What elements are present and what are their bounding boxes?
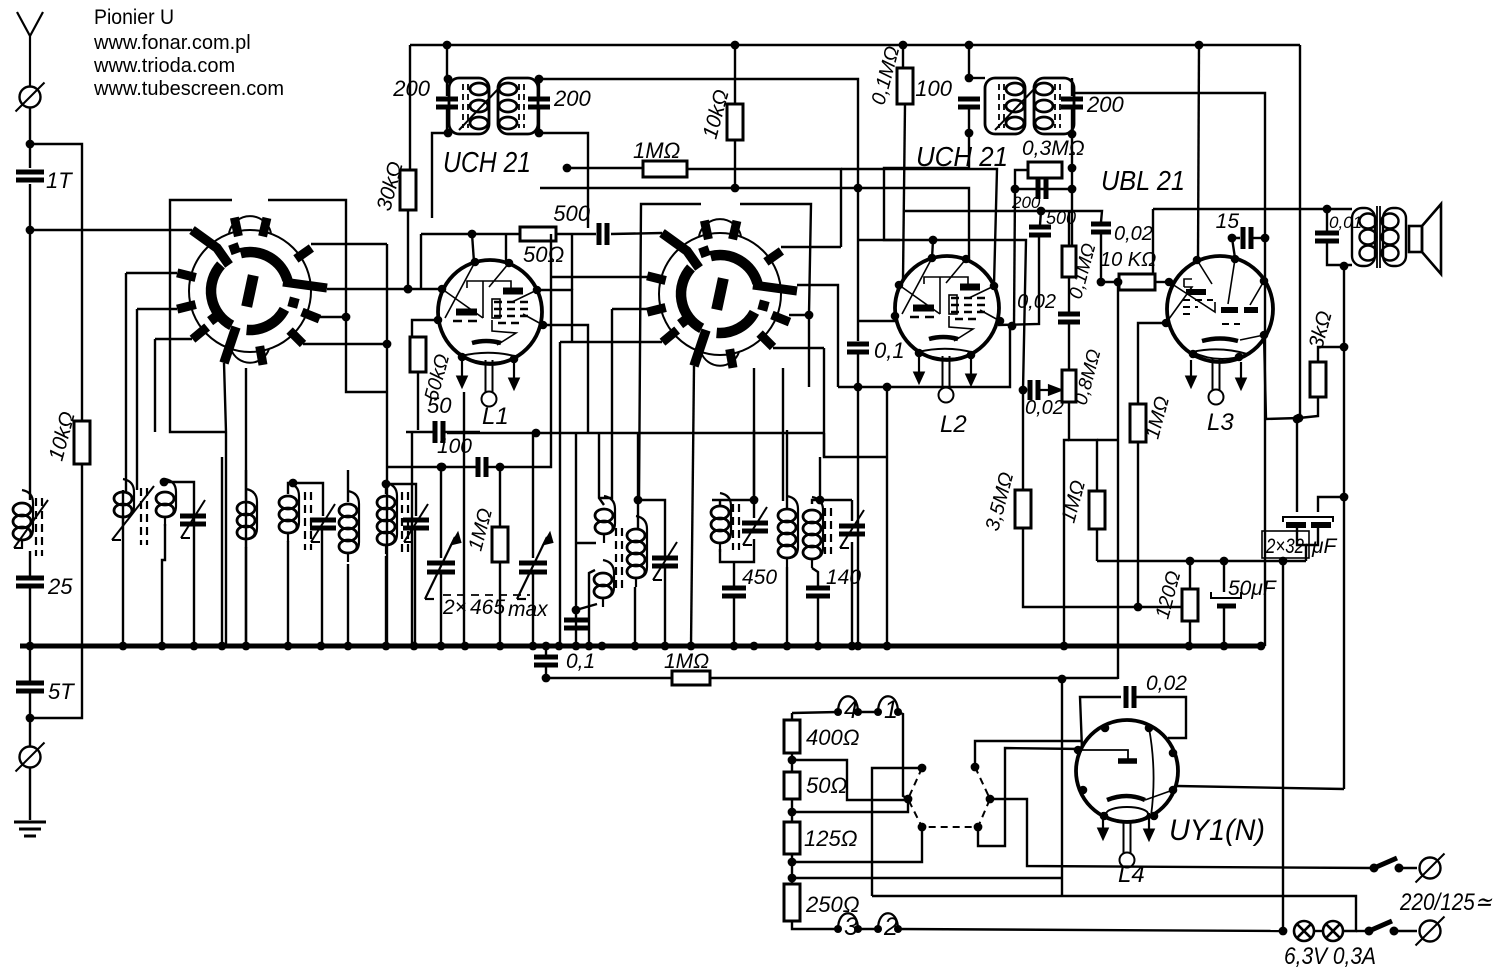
node 15 left [1228, 234, 1237, 243]
node x887 [883, 383, 892, 392]
plug contact b [904, 795, 913, 804]
wire y188 screen line [540, 188, 969, 258]
wire antenna to switch S1 [30, 229, 192, 231]
wire 120 top [1189, 561, 1191, 589]
wire coil450 sec down [786, 567, 788, 646]
wire 0.02 uy left [1080, 697, 1121, 749]
wire tube1 left low [412, 320, 438, 337]
speaker [1409, 204, 1441, 274]
node bus 576 [572, 642, 581, 651]
wire cap450 down [733, 596, 735, 646]
wire y94 link [1072, 93, 1265, 646]
wire S2 west stub [551, 276, 659, 278]
svg-text:μF: μF [1311, 535, 1338, 558]
node 3k top [1340, 343, 1349, 352]
node rail d [965, 41, 974, 50]
wire 0.02 lower down [1068, 322, 1070, 370]
core band4 [305, 492, 311, 550]
wire cap50 row [406, 431, 433, 433]
node bus 246 [242, 642, 251, 651]
svg-text:0,02: 0,02 [1025, 397, 1064, 419]
wire IFT1 bottom to grid box [432, 133, 448, 218]
node 15 right [1261, 234, 1270, 243]
wire 1M mid down [1096, 529, 1098, 561]
node rail e [1195, 41, 1204, 50]
wire S2 west2 stub [612, 308, 661, 310]
wire x1118 column [1117, 282, 1119, 679]
wire S1 west column2 [136, 309, 138, 490]
wire coil2 right column [162, 524, 165, 646]
svg-text:6,3V 0,3A: 6,3V 0,3A [1284, 943, 1376, 970]
wire 2x32 right down [1306, 528, 1318, 545]
wire coil450 up [753, 430, 755, 500]
wire y168 grid line [567, 167, 643, 169]
coil band5 [339, 491, 359, 562]
wire x1015 down [1014, 189, 1015, 326]
plug contact c [918, 823, 927, 832]
node bus 734 [730, 642, 739, 651]
resistor 1M ohm top [643, 161, 687, 177]
node IFT1 right top [535, 75, 544, 84]
svg-text:Pionier U: Pionier U [94, 6, 174, 29]
svg-text:L3: L3 [1207, 409, 1234, 436]
terminal 1 [874, 696, 902, 724]
svg-text:50: 50 [427, 393, 452, 418]
node bus 465 [461, 642, 470, 651]
wire IFT2 right top stub [1071, 78, 1073, 96]
wire 0.1M down to tube2 pin [903, 104, 905, 279]
antenna coil trimmer [14, 500, 48, 548]
wire x421 drop [420, 234, 422, 289]
trimmer cap band4 [310, 504, 336, 542]
coil band3 [237, 489, 257, 548]
capacitor 100 agc [478, 457, 486, 477]
svg-text:1T: 1T [46, 168, 73, 193]
svg-text:L1: L1 [482, 403, 509, 430]
wire varcap1 down [440, 572, 442, 646]
wire 0.8M down [1069, 402, 1097, 491]
plug contact d [974, 823, 983, 832]
trimmer band2 [112, 486, 154, 540]
svg-text:0,1: 0,1 [874, 338, 905, 363]
node bus 321 [317, 642, 326, 651]
tube UBL21 [1166, 256, 1273, 362]
ground [14, 822, 46, 836]
wire x1062 column [1061, 679, 1063, 896]
node 0.1 bottom [854, 383, 863, 392]
capacitor 50uF [1211, 592, 1241, 606]
wire lamp to switch [1356, 930, 1369, 932]
wire IFT2 left link [969, 77, 985, 79]
osc coil secondary [627, 516, 647, 587]
svg-text:www.trioda.com: www.trioda.com [93, 55, 235, 77]
wire varcap1 up [440, 467, 442, 558]
wire coil140 top row [812, 500, 852, 504]
svg-text:100: 100 [915, 76, 952, 101]
node bus 222 [218, 642, 227, 651]
wire sel mesh 3 [792, 827, 922, 862]
capacitor 0.1 osc [847, 344, 869, 352]
svg-text:125Ω: 125Ω [804, 826, 857, 851]
IF transformer 1 [449, 78, 538, 134]
svg-text:100: 100 [437, 435, 472, 458]
wire 0.1M ubl down [1068, 277, 1070, 312]
resistor 125 ohm [784, 822, 800, 854]
wire osc bottom coil entry [589, 570, 595, 646]
resistor 250 ohm [784, 884, 800, 921]
pilot lamp 2 [1323, 921, 1343, 941]
wire sel mesh 4 [978, 748, 1082, 846]
node 125-250 a [788, 858, 797, 867]
node bus 691 [687, 642, 696, 651]
wire 10k to screen line [734, 140, 736, 188]
wire rail to IFT1 cap [446, 45, 448, 96]
wire tube1 pins right [537, 290, 572, 342]
wire coil2 right top [164, 482, 194, 646]
wire 50-125 [791, 799, 793, 822]
wire 15 right [1251, 237, 1265, 239]
trimmer cap band2 [180, 500, 206, 538]
core band6 [402, 492, 408, 556]
svg-text:3: 3 [844, 913, 858, 941]
wire S1 west stub [126, 272, 177, 274]
wire varcap2 up [532, 433, 534, 558]
wire 3k link [1318, 347, 1344, 362]
node 30k bottom [404, 285, 413, 294]
capacitor 200 small [1038, 179, 1046, 199]
svg-text:465: 465 [470, 596, 505, 619]
wire 5T down [29, 691, 31, 747]
wire trim140 stub [851, 500, 853, 521]
capacitor 100 [958, 99, 980, 107]
osc core [616, 528, 622, 590]
wire rail right drop [1299, 45, 1301, 418]
wire 500 drop [1040, 211, 1041, 225]
wire 1M upper link [1097, 439, 1118, 441]
svg-text:2: 2 [883, 913, 898, 941]
IF transformer 2 [985, 78, 1074, 134]
wire 2x32 left down [1297, 528, 1306, 561]
node bus 1064 [1060, 642, 1069, 651]
wire 1M rail to tube2 pin [841, 169, 997, 285]
node bus 787 [783, 642, 792, 651]
wire tube2 top line [858, 240, 1026, 390]
mains connector bottom [1416, 917, 1445, 946]
heater arrow tube4 right [1144, 813, 1155, 841]
wire uy right pin [1177, 786, 1344, 789]
wire coil450 down [720, 549, 734, 562]
node bus 858 [854, 642, 863, 651]
wire 3k top [1343, 265, 1345, 347]
wire S2 s column [753, 368, 755, 500]
wire IFT1 right top stub [538, 79, 540, 97]
capacitor padder [564, 620, 588, 628]
tube UCH21 first [438, 260, 543, 364]
wire S2 se stub [773, 347, 824, 349]
svg-text:L2: L2 [940, 411, 967, 438]
wire cap25 to bus [29, 586, 31, 683]
node bus 635 [631, 642, 640, 651]
svg-text:10 KΩ: 10 KΩ [1100, 249, 1156, 271]
wire 200 small row [1015, 188, 1072, 190]
wire rail to IFT2 [968, 45, 970, 78]
terminal 3 [834, 913, 862, 941]
node osc top [634, 496, 643, 505]
wire cap100 right [488, 466, 500, 468]
node y607 junction [1134, 603, 1143, 612]
wire tube3 right pin link [1264, 335, 1299, 419]
resistor 10k ohm top [727, 104, 743, 140]
wire S1 sw column [154, 339, 156, 432]
svg-text:1: 1 [884, 696, 898, 724]
svg-text:UCH 21: UCH 21 [916, 141, 1008, 172]
wire cap100 row [387, 466, 476, 468]
wire S2 east stub [797, 285, 838, 387]
wire sel mesh 8 [872, 768, 922, 896]
wire 15 cap left [1232, 238, 1240, 258]
antenna coil core [36, 498, 42, 556]
wire 1M agc drop [499, 467, 501, 527]
tuning capacitor section 2 [517, 532, 553, 599]
capacitor 0.02 lower [1058, 314, 1080, 322]
wire y387 line [838, 327, 1010, 387]
node bus 441 [437, 642, 446, 651]
node below bus [542, 674, 551, 683]
wire S2 sw stub [560, 341, 662, 343]
node bus 500 [496, 642, 505, 651]
wire 3.5M drop [1022, 390, 1024, 490]
wire coil5 down [347, 564, 349, 646]
heater arrow tube2 left [914, 356, 925, 384]
wire antenna down [29, 108, 31, 168]
node 50-125 [788, 808, 797, 817]
svg-text:www.tubescreen.com: www.tubescreen.com [93, 78, 284, 100]
wire coil140 up [819, 457, 821, 500]
wire S1 west column1 [125, 273, 127, 492]
node bus 559 [555, 642, 564, 651]
wire trim140 down [851, 542, 853, 646]
tube4 stem [1120, 821, 1135, 868]
wire rail left drop [409, 45, 411, 170]
tube3 stem [1209, 358, 1224, 405]
node bus 1189 [1185, 642, 1194, 651]
trimmer cap 140 [839, 510, 865, 548]
wire 0.1M ubl top [1068, 211, 1070, 246]
wire osc top coil exit [576, 542, 596, 544]
wire rail to tube3 pin [1198, 45, 1199, 259]
wire 2x32 left up [1296, 419, 1298, 512]
wire sel mesh 1 [792, 760, 908, 800]
wire selector top [791, 713, 793, 720]
svg-text:200: 200 [1086, 92, 1124, 117]
node bus 348 [344, 642, 353, 651]
svg-text:25: 25 [47, 574, 73, 599]
wire S1 ese stub [319, 316, 346, 318]
wire cap450 up [733, 562, 735, 586]
wire S2 ne link [781, 246, 841, 248]
wire y211 line [905, 211, 1102, 222]
wire t4-t1 [858, 711, 878, 713]
wire x412 column [411, 432, 413, 646]
wire t2 right [898, 929, 1281, 931]
wire IFT1 right bottom down [539, 133, 588, 228]
coil band4 left [279, 483, 299, 542]
wire tube1 pin right2 [543, 325, 588, 433]
wire cap140 down [817, 596, 819, 646]
wire x576 column [575, 433, 577, 646]
capacitor 50 [435, 421, 443, 443]
wire 250 bottom [792, 921, 838, 929]
wire S2 box topleft [639, 204, 701, 500]
terminal 4 [834, 696, 862, 724]
node 120 top [1186, 557, 1195, 566]
node osc padder [572, 606, 581, 615]
node bus 754 [750, 642, 759, 651]
wire S1 east link to tube1 [327, 288, 442, 290]
osc coil top [595, 496, 615, 543]
capacitor 140 [806, 588, 830, 596]
svg-text:50Ω: 50Ω [806, 773, 847, 798]
antenna connector [16, 83, 45, 112]
wire ground bus [20, 644, 1261, 649]
wire osc top column [637, 433, 639, 500]
tube2 stem [939, 356, 954, 403]
node 200 left [1011, 185, 1020, 194]
node speaker bottom [1340, 262, 1349, 271]
capacitor 2x32uF [1262, 517, 1333, 558]
node IFT1 right bottom [535, 129, 544, 138]
capacitor 200 right of IFT1 [528, 99, 550, 107]
core 140 [825, 508, 831, 554]
capacitor 500 ubl [1029, 227, 1051, 235]
node bus 533 [529, 642, 538, 651]
wire S1 south drop [245, 368, 247, 646]
wire coil450 entry [719, 500, 721, 506]
svg-text:www.fonar.com.pl: www.fonar.com.pl [93, 32, 251, 54]
tube UCH21 second [895, 256, 1000, 360]
svg-text:4: 4 [844, 696, 858, 724]
wire 10K to tube3 [1155, 281, 1169, 283]
wire x887 column [886, 387, 888, 646]
wire S2 s column2 [782, 368, 784, 501]
wire t1 down [898, 712, 908, 799]
svg-text:140: 140 [826, 566, 861, 589]
tube UY1 [1076, 720, 1178, 822]
wire y457 jog [824, 433, 887, 457]
capacitor 450 [722, 588, 746, 596]
node x1118 top [1114, 278, 1123, 287]
node bus 386 [382, 642, 391, 651]
node bus left [26, 642, 35, 651]
capacitor 15 [1243, 227, 1251, 249]
trimmer cap 450 [742, 507, 768, 545]
mains connector top [1416, 854, 1445, 883]
node coil140 top [816, 496, 825, 505]
wire y209 line [1153, 208, 1327, 210]
resistor 50k ohm [410, 337, 426, 372]
wire IFT1 top to osc cap column [539, 79, 858, 341]
wire coil4 trim down [321, 528, 323, 646]
svg-text:max: max [508, 598, 549, 621]
node rail c [899, 41, 908, 50]
wire lamp bypass [872, 896, 1356, 931]
svg-text:50μF: 50μF [1228, 577, 1277, 600]
wire bypass branch [30, 144, 82, 421]
svg-text:220/125≃: 220/125≃ [1399, 889, 1493, 916]
band switch S2 [659, 219, 781, 366]
resistor 0.8M ohm [1062, 370, 1076, 402]
wire 400-50 [791, 753, 793, 772]
wire osc sec top [637, 500, 639, 529]
wire S1 box topright [268, 200, 387, 392]
wire 30k down [407, 210, 409, 289]
node bus 288 [284, 642, 293, 651]
dashed gang link [443, 594, 530, 596]
node rail a [443, 41, 452, 50]
node bus 546 [542, 642, 551, 651]
node S1 se2 [383, 340, 392, 349]
node bus 162 [158, 642, 167, 651]
tuning capacitor section 1 [425, 532, 461, 599]
node coil2 top [160, 478, 169, 487]
arrow to 0.8M potentiometer [1040, 386, 1061, 395]
node cap100 left [438, 463, 447, 472]
wire S1 box topleft [170, 200, 232, 432]
resistor 3.5M ohm [1015, 490, 1031, 528]
wire 3.5M down [1023, 528, 1184, 607]
node bus 665 [661, 642, 670, 651]
wire 0.1 to heater line [546, 665, 672, 678]
wire cap100 to x551 [500, 234, 551, 467]
svg-text:UCH 21: UCH 21 [443, 147, 531, 179]
terminal 2 [874, 913, 902, 941]
wire tube1 top to S2 [421, 233, 596, 235]
wire x222 drop [221, 457, 223, 646]
capacitor 200 left of IFT1 [436, 99, 458, 107]
svg-text:200: 200 [392, 76, 430, 101]
wire 125-250 [791, 854, 793, 884]
wire 0.1 down [857, 352, 859, 646]
mains switch bottom [1365, 921, 1399, 936]
node bus 414 [410, 642, 419, 651]
capacitor 25 [16, 578, 44, 586]
node bus 1224 [1220, 642, 1229, 651]
osc coil bottom [594, 560, 614, 607]
wire osc top coil entry [599, 433, 604, 505]
wire coil3 top [245, 470, 247, 500]
wire osc trim link [638, 500, 665, 556]
svg-text:0,01: 0,01 [1329, 213, 1362, 232]
svg-text:500: 500 [1046, 208, 1076, 228]
node right drop [1295, 414, 1304, 423]
wire heater line right [710, 677, 1118, 679]
node x1344 497 [1340, 493, 1349, 502]
plug contact f [971, 763, 980, 772]
resistor 10k ohm left [74, 421, 90, 464]
wire trim450 stub [753, 500, 755, 518]
node IFT1 left top [444, 75, 453, 84]
wire S1 west2 stub [137, 308, 177, 310]
wire coil450 top row [712, 499, 754, 501]
resistor 1M below bus [672, 671, 710, 685]
wire IFT2 200 down [1071, 107, 1073, 245]
coil band2 left [114, 479, 134, 526]
heater arrow tube1 left [457, 360, 468, 388]
node 1M left [563, 164, 572, 173]
wire 1M upper top [1138, 323, 1166, 404]
svg-text:450: 450 [742, 566, 777, 589]
wire S2 bottom drop [691, 366, 694, 646]
